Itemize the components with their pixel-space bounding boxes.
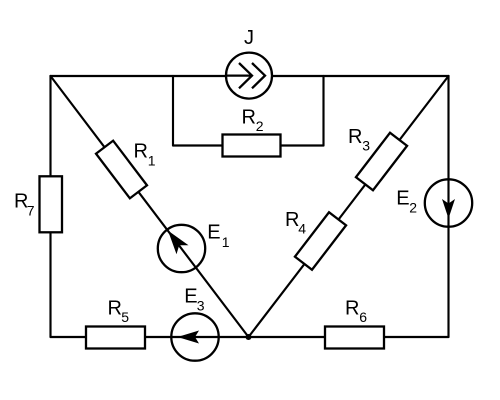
resistor R1 xyxy=(96,141,147,199)
resistor R6 xyxy=(325,327,384,349)
svg-text:1: 1 xyxy=(222,234,230,250)
svg-text:2: 2 xyxy=(256,118,264,134)
current source J xyxy=(226,53,272,99)
svg-text:1: 1 xyxy=(148,153,156,169)
svg-text:J: J xyxy=(244,27,254,49)
resistor R5 xyxy=(86,327,145,349)
svg-text:E: E xyxy=(207,222,220,244)
resistor R3 xyxy=(356,133,407,191)
wire right xyxy=(447,76,449,337)
resistor R7 xyxy=(40,176,63,232)
svg-text:7: 7 xyxy=(27,202,35,218)
svg-text:R: R xyxy=(285,209,299,231)
svg-text:4: 4 xyxy=(298,221,306,237)
svg-text:R: R xyxy=(345,297,359,319)
svg-text:E: E xyxy=(184,286,197,308)
wire left xyxy=(49,76,51,337)
wire diagonal right xyxy=(249,76,449,337)
wire R2-branch left drop xyxy=(172,76,174,146)
svg-text:R: R xyxy=(134,141,148,163)
source E2 xyxy=(425,179,472,226)
svg-text:3: 3 xyxy=(362,138,370,154)
svg-text:R: R xyxy=(348,126,362,148)
svg-text:6: 6 xyxy=(359,309,367,325)
resistor R2 xyxy=(223,135,281,157)
source E3 xyxy=(171,313,218,360)
wire R2-branch horizontal xyxy=(173,144,324,146)
node junction dot xyxy=(246,334,252,340)
svg-text:3: 3 xyxy=(197,297,205,313)
svg-text:E: E xyxy=(396,187,409,209)
source E1 xyxy=(158,225,205,272)
svg-text:5: 5 xyxy=(121,309,129,325)
svg-text:R: R xyxy=(108,297,122,319)
wire R2-branch right drop xyxy=(322,76,324,146)
svg-text:R: R xyxy=(242,106,256,128)
wire bottom xyxy=(51,336,449,338)
svg-text:2: 2 xyxy=(409,200,417,216)
wire top xyxy=(51,75,449,77)
resistor R4 xyxy=(295,212,346,270)
wire diagonal left xyxy=(51,76,249,337)
